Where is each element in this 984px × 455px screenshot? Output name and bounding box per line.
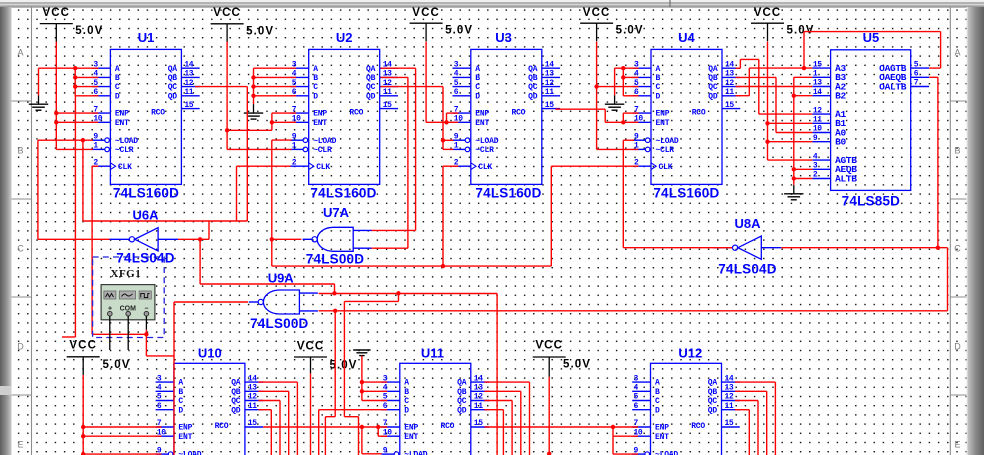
svg-text:D: D (656, 92, 661, 101)
svg-text:U5: U5 (863, 30, 880, 45)
svg-text:5: 5 (914, 60, 919, 69)
svg-text:1: 1 (454, 142, 459, 151)
svg-text:12: 12 (474, 393, 483, 402)
svg-text:3: 3 (634, 374, 639, 383)
svg-text:14: 14 (725, 60, 734, 69)
svg-text:B: B (656, 74, 661, 83)
svg-text:QD: QD (528, 92, 538, 101)
svg-text:A: A (313, 65, 318, 74)
svg-text:13: 13 (474, 384, 483, 393)
svg-text:QC: QC (366, 83, 376, 92)
svg-text:3: 3 (454, 60, 459, 69)
svg-text:15: 15 (545, 101, 554, 110)
svg-text:ENP: ENP (475, 110, 489, 119)
svg-text:QA: QA (231, 379, 241, 388)
svg-text:9: 9 (93, 132, 98, 141)
svg-text:7: 7 (914, 79, 919, 88)
svg-text:12: 12 (725, 393, 734, 402)
svg-text:QD: QD (708, 92, 718, 101)
svg-text:QD: QD (231, 406, 241, 415)
svg-text:ENP: ENP (404, 424, 418, 433)
svg-text:~CLR: ~CLR (656, 146, 675, 155)
svg-text:D: D (655, 406, 660, 415)
svg-text:15: 15 (474, 419, 483, 428)
svg-text:QC: QC (168, 83, 178, 92)
svg-text:QB: QB (708, 388, 718, 397)
svg-text:U6A: U6A (132, 208, 159, 223)
svg-text:QD: QD (708, 406, 718, 415)
svg-text:13: 13 (545, 70, 554, 79)
svg-text:ENT: ENT (475, 119, 489, 128)
svg-text:12: 12 (813, 106, 822, 115)
svg-text:ENT: ENT (655, 433, 669, 442)
svg-text:A: A (115, 65, 120, 74)
svg-text:12: 12 (545, 79, 554, 88)
svg-text:C: C (404, 397, 409, 406)
svg-text:QA: QA (457, 379, 467, 388)
svg-text:6: 6 (157, 402, 162, 411)
svg-text:VCC: VCC (412, 7, 440, 19)
svg-text:74LS160D: 74LS160D (113, 185, 179, 200)
svg-text:ALTB: ALTB (835, 173, 857, 184)
svg-text:QB: QB (231, 388, 241, 397)
svg-text:QC: QC (457, 397, 467, 406)
svg-text:ENT: ENT (178, 433, 192, 442)
svg-text:VCC: VCC (297, 341, 325, 353)
svg-text:U12: U12 (678, 346, 702, 361)
svg-text:C: C (656, 83, 661, 92)
svg-text:13: 13 (725, 70, 734, 79)
svg-text:U7A: U7A (323, 205, 350, 220)
svg-text:U2: U2 (336, 30, 353, 45)
svg-text:U9A: U9A (268, 271, 295, 286)
svg-text:13: 13 (725, 384, 734, 393)
svg-text:4: 4 (634, 384, 639, 393)
svg-text:6: 6 (634, 402, 639, 411)
svg-text:~LOAD: ~LOAD (655, 451, 678, 455)
svg-text:CLK: CLK (659, 163, 673, 172)
svg-text:9: 9 (634, 132, 639, 141)
svg-text:~CLR: ~CLR (115, 146, 134, 155)
svg-text:15: 15 (813, 60, 822, 69)
svg-text:A: A (656, 65, 661, 74)
svg-text:9: 9 (813, 134, 818, 143)
svg-text:14: 14 (545, 60, 554, 69)
svg-text:13: 13 (184, 70, 193, 79)
svg-text:11: 11 (725, 402, 734, 411)
svg-text:C: C (17, 244, 24, 254)
svg-text:CLK: CLK (118, 163, 132, 172)
svg-text:13: 13 (248, 384, 257, 393)
svg-text:11: 11 (248, 402, 257, 411)
svg-text:QC: QC (708, 83, 718, 92)
svg-text:4: 4 (813, 152, 818, 161)
svg-text:5.0V: 5.0V (616, 25, 644, 37)
svg-text:VCC: VCC (583, 7, 611, 19)
svg-text:15: 15 (383, 101, 392, 110)
svg-text:B0: B0 (835, 137, 846, 148)
svg-text:QA: QA (168, 65, 178, 74)
svg-text:14: 14 (474, 374, 483, 383)
svg-text:C: C (475, 83, 480, 92)
svg-text:C: C (313, 83, 318, 92)
svg-text:15: 15 (184, 101, 193, 110)
svg-text:15: 15 (248, 419, 257, 428)
svg-text:A: A (404, 379, 409, 388)
svg-text:9: 9 (454, 132, 459, 141)
svg-text:U1: U1 (138, 30, 155, 45)
svg-text:74LS85D: 74LS85D (842, 194, 900, 209)
svg-text:6: 6 (454, 88, 459, 97)
svg-text:3: 3 (157, 374, 162, 383)
svg-text:ENT: ENT (656, 119, 670, 128)
svg-text:RCO: RCO (691, 422, 705, 431)
svg-text:D: D (17, 342, 24, 352)
svg-text:15: 15 (725, 101, 734, 110)
svg-text:5.0V: 5.0V (330, 360, 358, 372)
svg-text:D: D (115, 92, 120, 101)
svg-text:74LS00D: 74LS00D (250, 316, 308, 331)
svg-text:D: D (178, 406, 183, 415)
svg-text:~LOAD: ~LOAD (178, 451, 201, 455)
svg-text:74LS160D: 74LS160D (475, 185, 541, 200)
svg-text:VCC: VCC (213, 7, 241, 19)
svg-text:VCC: VCC (535, 340, 563, 352)
svg-text:QA: QA (708, 379, 718, 388)
svg-text:~CLR: ~CLR (313, 146, 332, 155)
svg-text:OALTB: OALTB (879, 81, 907, 92)
svg-text:5.0V: 5.0V (75, 25, 103, 37)
svg-text:6: 6 (914, 70, 919, 79)
svg-text:~LOAD: ~LOAD (475, 137, 498, 146)
svg-text:13: 13 (813, 79, 822, 88)
svg-text:9: 9 (383, 446, 388, 455)
svg-text:11: 11 (184, 88, 193, 97)
svg-text:ENP: ENP (178, 424, 192, 433)
svg-text:D: D (404, 406, 409, 415)
svg-text:A: A (655, 379, 660, 388)
svg-text:QD: QD (168, 92, 178, 101)
svg-text:E: E (17, 440, 23, 450)
svg-text:E: E (954, 440, 960, 450)
svg-text:74LS04D: 74LS04D (116, 251, 174, 266)
svg-text:A: A (954, 48, 960, 58)
svg-text:QC: QC (528, 83, 538, 92)
svg-text:C: C (115, 83, 120, 92)
svg-text:B: B (655, 388, 660, 397)
svg-text:~LOAD: ~LOAD (404, 451, 427, 455)
svg-text:RCO: RCO (692, 108, 706, 117)
svg-text:~CLR: ~CLR (475, 146, 494, 155)
svg-text:A: A (178, 379, 183, 388)
svg-text:QC: QC (231, 397, 241, 406)
svg-text:15: 15 (725, 419, 734, 428)
svg-text:14: 14 (184, 60, 193, 69)
svg-text:C: C (655, 397, 660, 406)
svg-text:ENP: ENP (115, 110, 129, 119)
svg-text:QB: QB (528, 74, 538, 83)
svg-text:5.0V: 5.0V (103, 359, 131, 371)
svg-text:CLK: CLK (478, 163, 492, 172)
svg-text:2: 2 (292, 158, 297, 167)
svg-text:B: B (178, 388, 183, 397)
svg-text:VCC: VCC (43, 7, 71, 19)
svg-text:RCO: RCO (151, 108, 165, 117)
svg-text:B: B (475, 74, 480, 83)
svg-text:5.0V: 5.0V (787, 25, 815, 37)
svg-text:QD: QD (457, 406, 467, 415)
svg-text:11: 11 (813, 116, 822, 125)
svg-text:4: 4 (157, 384, 162, 393)
svg-text:QD: QD (366, 92, 376, 101)
svg-text:14: 14 (813, 88, 822, 97)
svg-text:5.0V: 5.0V (563, 359, 591, 371)
svg-text:B2: B2 (835, 91, 846, 102)
svg-text:A: A (17, 48, 23, 58)
svg-text:B: B (313, 74, 318, 83)
svg-text:C: C (954, 244, 961, 254)
svg-text:C: C (178, 397, 183, 406)
svg-text:QC: QC (708, 397, 718, 406)
svg-text:ENT: ENT (313, 119, 327, 128)
svg-text:11: 11 (545, 88, 554, 97)
svg-text:12: 12 (725, 79, 734, 88)
svg-text:D: D (475, 92, 480, 101)
svg-text:11: 11 (383, 88, 392, 97)
svg-text:B: B (115, 74, 120, 83)
svg-text:12: 12 (184, 79, 193, 88)
svg-text:QA: QA (528, 65, 538, 74)
svg-text:VCC: VCC (754, 7, 782, 19)
svg-text:74LS160D: 74LS160D (653, 185, 719, 200)
svg-text:74LS160D: 74LS160D (310, 185, 376, 200)
svg-text:D: D (313, 92, 318, 101)
svg-text:B: B (404, 388, 409, 397)
svg-text:14: 14 (725, 374, 734, 383)
svg-text:74LS04D: 74LS04D (718, 262, 776, 277)
svg-text:ENP: ENP (313, 110, 327, 119)
svg-text:A: A (475, 65, 480, 74)
svg-text:5: 5 (634, 393, 639, 402)
svg-text:1: 1 (813, 70, 818, 79)
svg-text:11: 11 (474, 402, 483, 411)
svg-text:ENP: ENP (656, 110, 670, 119)
svg-text:~LOAD: ~LOAD (115, 137, 138, 146)
svg-text:12: 12 (248, 393, 257, 402)
svg-text:ENT: ENT (404, 433, 418, 442)
svg-text:U10: U10 (198, 346, 222, 361)
svg-text:B: B (17, 146, 23, 156)
svg-text:B: B (954, 146, 960, 156)
svg-text:2: 2 (813, 171, 818, 180)
svg-text:5: 5 (157, 393, 162, 402)
svg-text:5.0V: 5.0V (445, 25, 473, 37)
svg-text:ENP: ENP (655, 424, 669, 433)
svg-text:14: 14 (248, 374, 257, 383)
svg-text:U4: U4 (678, 30, 695, 45)
svg-text:QB: QB (168, 74, 178, 83)
svg-text:11: 11 (725, 88, 734, 97)
svg-text:RCO: RCO (215, 422, 229, 431)
svg-text:ENT: ENT (115, 119, 129, 128)
svg-text:RCO: RCO (349, 108, 363, 117)
svg-text:QB: QB (708, 74, 718, 83)
svg-text:1: 1 (292, 142, 297, 151)
svg-text:VCC: VCC (69, 340, 97, 352)
svg-text:CLK: CLK (316, 163, 330, 172)
svg-text:~LOAD: ~LOAD (313, 137, 336, 146)
svg-text:10: 10 (813, 125, 822, 134)
svg-text:~LOAD: ~LOAD (656, 137, 679, 146)
svg-text:RCO: RCO (440, 422, 454, 431)
svg-text:QA: QA (708, 65, 718, 74)
svg-text:1: 1 (93, 142, 98, 151)
svg-text:5: 5 (454, 79, 459, 88)
svg-text:RCO: RCO (511, 108, 525, 117)
svg-text:XFG1: XFG1 (111, 268, 142, 280)
svg-text:3: 3 (813, 162, 818, 171)
svg-text:U11: U11 (421, 346, 444, 361)
svg-text:QA: QA (366, 65, 376, 74)
svg-text:QB: QB (366, 74, 376, 83)
svg-text:9: 9 (292, 132, 297, 141)
svg-text:74LS00D: 74LS00D (306, 252, 364, 267)
svg-text:5.0V: 5.0V (246, 25, 274, 37)
svg-text:D: D (954, 342, 961, 352)
svg-text:4: 4 (454, 70, 459, 79)
svg-text:U3: U3 (495, 30, 512, 45)
svg-text:U8A: U8A (734, 216, 761, 231)
svg-text:QB: QB (457, 388, 467, 397)
